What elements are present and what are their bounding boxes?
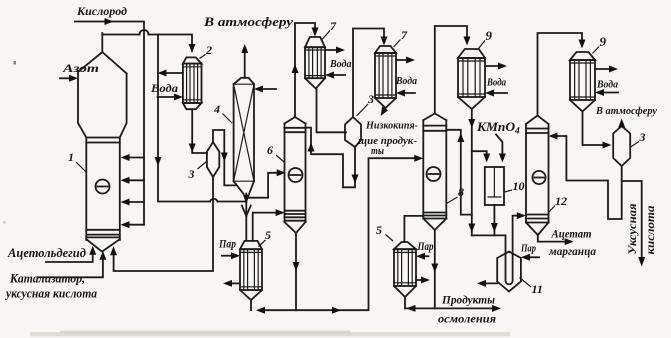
svg-text:3: 3 <box>639 130 646 144</box>
bottoms collecting line to heater 5a and riser to column 8 feed <box>256 155 423 314</box>
svg-text:7: 7 <box>401 28 408 42</box>
svg-text:Пар: Пар <box>417 241 434 253</box>
overhead gas line from column 1 to exchanger 2 <box>102 30 195 53</box>
svg-text:5: 5 <box>376 223 382 237</box>
svg-text:Ацетольдегид: Ацетольдегид <box>7 246 86 260</box>
svg-text:Продукты: Продукты <box>441 293 495 307</box>
svg-text:Вода: Вода <box>150 83 178 95</box>
svg-text:11: 11 <box>532 282 543 296</box>
svg-text:Азот: Азот <box>62 61 99 75</box>
acetic acid product line (Уксусная кислота) <box>622 181 657 267</box>
svg-text:марганца: марганца <box>548 244 596 258</box>
svg-text:10: 10 <box>513 179 525 193</box>
reflux line separator 3b to column 6 <box>306 128 359 188</box>
oxygen branch arrows into column 1 <box>121 154 145 228</box>
column 6 (distillation column) <box>285 117 306 233</box>
column 4 bottom outlet with Y junction to heater 5a <box>242 194 251 241</box>
svg-text:Кислород: Кислород <box>76 4 127 18</box>
label 10 <box>505 179 525 193</box>
label 6 <box>267 143 284 162</box>
svg-text:Вода: Вода <box>395 76 417 87</box>
svg-text:осмоления: осмоления <box>438 312 496 326</box>
transfer line column 4 bottom to column 6 upper feed <box>246 169 285 197</box>
label 9a <box>479 28 493 49</box>
svg-text:щие продук-: щие продук- <box>358 135 417 147</box>
column 8 (distillation column) <box>423 114 446 231</box>
return line to column 4 region (tee at x158) <box>155 35 247 202</box>
condensate line condenser 9a down <box>468 109 475 235</box>
scan artifacts: bottom smudge band and specks (decorative) <box>3 61 510 337</box>
condensate out arrow heater 5a <box>223 280 240 287</box>
svg-text:2: 2 <box>205 43 212 57</box>
condensate out arrow heater 5b <box>416 277 430 284</box>
svg-text:7: 7 <box>330 19 337 33</box>
column 1 (oxidation column) <box>78 33 127 252</box>
vapor line heater 5a to column 6 lower feed <box>253 209 285 241</box>
condenser 9a <box>458 49 485 109</box>
steam heater 5a <box>240 241 262 310</box>
separator 3b <box>345 117 361 147</box>
column 8 bottoms line <box>431 230 438 308</box>
condenser 7a <box>305 37 325 89</box>
svg-text:Пар: Пар <box>218 239 236 251</box>
svg-text:12: 12 <box>555 194 567 208</box>
svg-text:4: 4 <box>213 102 220 116</box>
condensate line condenser 9b to separator 3c <box>583 112 612 149</box>
steam in arrow heater 11 (Пар) <box>520 243 539 261</box>
wash liquid arrow into column 4 <box>254 86 276 93</box>
water arrows condenser 9a (Вода) <box>485 63 507 97</box>
svg-text:6: 6 <box>267 143 273 157</box>
reflux line into column 8 <box>446 130 472 215</box>
branch into mixer 10 <box>472 151 490 162</box>
heat exchanger 2 (condenser) <box>183 57 202 109</box>
label 7a <box>322 19 337 40</box>
overhead line column 12 to condenser 9b <box>538 33 586 116</box>
label 3b <box>357 92 375 116</box>
liquid recycle line separator 3a to column 1 bottom <box>110 177 213 271</box>
mixer 10 outlet line <box>491 205 498 235</box>
circle gauge on column 1 <box>96 180 110 194</box>
svg-text:3: 3 <box>367 92 374 106</box>
svg-text:5: 5 <box>265 228 271 242</box>
nitrogen feed (Азот) <box>60 61 99 82</box>
circle gauge on column 8 <box>427 167 441 181</box>
svg-text:В атмосферу: В атмосферу <box>595 105 657 117</box>
low boiling products outlet of condenser 7b <box>381 107 388 117</box>
circle gauge on column 12 <box>532 171 545 184</box>
separator 3c <box>613 126 630 166</box>
label 12 <box>549 194 567 212</box>
label 5b <box>376 223 393 241</box>
overhead vapor line column 6 to condenser 7a <box>292 23 319 117</box>
svg-text:Катализатор,: Катализатор, <box>9 272 85 286</box>
water arrows condenser 7a (Вода) <box>325 47 352 79</box>
water arrows of exchanger 2 (Вода) <box>150 70 183 101</box>
label 1 <box>68 150 86 172</box>
label 5a <box>259 228 272 247</box>
svg-text:Уксусная: Уксусная <box>627 203 639 254</box>
gas line separator 3b to condenser 7b <box>353 29 388 118</box>
label 8 <box>447 185 465 204</box>
svg-text:Ацетат: Ацетат <box>551 227 592 241</box>
label 3a <box>188 162 207 182</box>
vent to atmosphere (В атмосферу) <box>203 14 293 78</box>
svg-text:ты: ты <box>371 145 384 157</box>
svg-text:уксусная кислота: уксусная кислота <box>4 287 97 301</box>
overhead line column 8 to condenser 9a <box>435 26 471 114</box>
steam heater 5b (reboiler of column 8) <box>394 216 423 309</box>
column 4 (packed vent scrubber) <box>234 78 254 194</box>
label 7b <box>394 28 409 47</box>
reflux loop separator 3c to column 12 <box>549 133 622 220</box>
separator 3a <box>207 142 219 177</box>
water arrows condenser 9b (Вода) <box>595 66 618 97</box>
svg-text:Вода: Вода <box>596 80 618 91</box>
KMnO4 feed <box>476 120 520 163</box>
circle gauge on column 6 <box>289 168 303 182</box>
svg-text:1: 1 <box>68 150 74 164</box>
column 12 (rectification column) <box>526 116 549 236</box>
acetaldehyde feed (Ацетольдегид) <box>7 246 96 262</box>
condensate line condenser 7a to separator 3b <box>317 89 347 133</box>
mixer vessel 10 <box>485 167 504 205</box>
condenser 9b <box>570 52 595 112</box>
label 11 <box>520 278 543 297</box>
gas line separator 3a to column 4 <box>213 130 235 185</box>
svg-text:Низкокипя-: Низкокипя- <box>365 120 418 132</box>
label 9b <box>593 34 607 54</box>
svg-text:Вода: Вода <box>486 78 506 89</box>
label Низкокипящие продукты <box>358 120 418 158</box>
svg-text:Вода: Вода <box>329 59 351 70</box>
svg-text:3: 3 <box>188 167 195 181</box>
column 6 bottoms line down <box>293 233 300 310</box>
condenser 7b <box>375 46 396 108</box>
U-tube heater 11 <box>497 212 526 291</box>
label 4 <box>213 102 232 123</box>
svg-text:9: 9 <box>486 28 493 43</box>
vent to atmosphere from separator 3c (В атмосферу) <box>595 105 657 128</box>
feed header to U-tube heater 11 <box>472 234 506 236</box>
oxygen feed line (Кислород) <box>75 4 144 225</box>
label 2 <box>200 43 213 59</box>
manganese acetate outlet (Ацетат марганца) <box>538 227 596 259</box>
catalyst feed (Катализатор, уксусная кислота) <box>4 251 106 301</box>
resin products line (Продукты осмоления) <box>407 293 502 326</box>
svg-text:кислота: кислота <box>645 205 657 254</box>
svg-text:9: 9 <box>600 34 607 49</box>
steam in arrow heater 5a (Пар) <box>218 239 240 260</box>
label 3c <box>631 130 646 147</box>
water arrows condenser 7b (Вода) <box>395 57 417 97</box>
condensate out arrow heater 11 <box>477 280 497 287</box>
svg-text:В атмосферу: В атмосферу <box>203 14 293 29</box>
steam in arrow heater 5b (Пар) <box>416 241 434 260</box>
svg-text:Пар: Пар <box>520 243 536 255</box>
condensate line exchanger 2 to separator 3a <box>189 109 207 153</box>
